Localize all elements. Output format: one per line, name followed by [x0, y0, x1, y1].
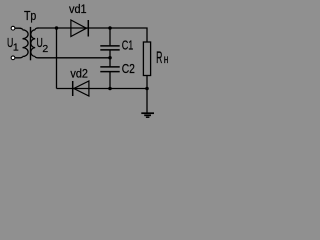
- wire (resistor bottom lead): [146, 76, 148, 89]
- junction dot midpoint: [108, 56, 112, 60]
- junction dot C2 bottom: [108, 87, 112, 91]
- transformer primary terminal (top): [11, 26, 15, 30]
- svg-text:vd2: vd2: [70, 66, 88, 80]
- wire (C1 top lead): [109, 28, 111, 46]
- wire (primary bottom lead): [15, 57, 23, 58]
- diode vd1: [71, 20, 87, 37]
- svg-text:н: н: [164, 52, 169, 66]
- wire (lower rail): [57, 88, 149, 90]
- wire (secondary top lead): [35, 28, 38, 30]
- capacitor C1: [100, 45, 119, 47]
- svg-text:2: 2: [42, 43, 48, 55]
- junction dot node A top: [55, 26, 59, 30]
- svg-text:vd1: vd1: [69, 2, 87, 16]
- wire (ground lead): [146, 89, 148, 113]
- transformer core: [30, 27, 32, 60]
- resistor Rn: [143, 42, 150, 76]
- svg-text:1: 1: [13, 41, 19, 53]
- svg-text:R: R: [156, 49, 162, 67]
- wire (primary top lead): [15, 28, 23, 30]
- wire (secondary bottom lead to midpoint): [35, 57, 110, 58]
- wire (C2 bottom lead): [109, 72, 111, 89]
- svg-text:Tp: Tp: [24, 9, 36, 23]
- capacitor C2: [100, 66, 119, 68]
- ground: [141, 112, 154, 114]
- diode vd1 cathode bar: [87, 20, 89, 37]
- wire (C1-C2 link): [109, 50, 111, 66]
- svg-text:C2: C2: [122, 61, 135, 76]
- junction dot output minus: [145, 87, 149, 91]
- secondary winding U2: [31, 30, 35, 57]
- svg-text:C1: C1: [122, 37, 134, 52]
- junction dot output plus: [108, 26, 112, 30]
- transformer primary terminal (bottom): [11, 56, 15, 60]
- primary winding U1: [23, 30, 29, 57]
- diode vd2: [74, 81, 89, 96]
- wire (node A vertical link): [56, 28, 58, 89]
- diode vd2 cathode bar: [72, 81, 74, 96]
- wire (top rail): [38, 28, 148, 42]
